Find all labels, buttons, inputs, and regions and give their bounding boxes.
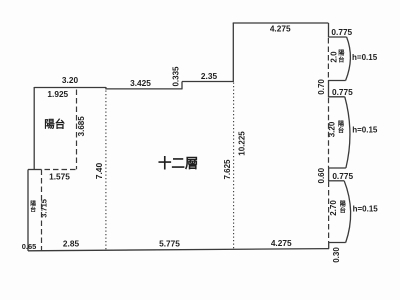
- svg-text:0.30: 0.30: [332, 247, 341, 263]
- svg-text:4.275: 4.275: [270, 24, 291, 34]
- svg-text:5.775: 5.775: [159, 239, 180, 249]
- svg-text:3.20: 3.20: [328, 121, 337, 137]
- svg-text:台: 台: [340, 207, 346, 215]
- svg-text:3.425: 3.425: [130, 78, 151, 88]
- svg-text:7.625: 7.625: [223, 159, 232, 180]
- svg-text:2.85: 2.85: [63, 238, 80, 248]
- svg-text:1.925: 1.925: [47, 89, 68, 99]
- svg-text:3.715: 3.715: [40, 199, 49, 218]
- svg-text:十二層: 十二層: [158, 155, 199, 171]
- svg-text:陽台: 陽台: [44, 118, 65, 131]
- svg-text:h=0.15: h=0.15: [352, 125, 378, 134]
- svg-text:0.60: 0.60: [317, 167, 326, 183]
- svg-text:2.70: 2.70: [329, 200, 338, 216]
- svg-text:2.35: 2.35: [201, 71, 218, 81]
- svg-text:台: 台: [338, 127, 344, 135]
- svg-text:0.65: 0.65: [22, 242, 37, 251]
- svg-text:4.275: 4.275: [271, 238, 292, 248]
- svg-text:0.775: 0.775: [332, 87, 353, 97]
- svg-text:台: 台: [338, 56, 344, 64]
- svg-text:0.775: 0.775: [331, 27, 352, 37]
- svg-text:7.40: 7.40: [94, 162, 104, 179]
- svg-text:陽: 陽: [30, 199, 36, 207]
- svg-text:0.70: 0.70: [317, 79, 326, 95]
- svg-text:10.225: 10.225: [238, 131, 247, 156]
- svg-text:h=0.15: h=0.15: [353, 205, 379, 214]
- svg-text:台: 台: [30, 206, 36, 214]
- svg-text:3.20: 3.20: [62, 75, 79, 85]
- svg-text:0.775: 0.775: [332, 171, 353, 181]
- svg-text:3.685: 3.685: [77, 116, 86, 137]
- svg-text:h=0.15: h=0.15: [352, 53, 378, 62]
- svg-text:0.335: 0.335: [171, 66, 180, 87]
- svg-text:1.575: 1.575: [49, 172, 70, 182]
